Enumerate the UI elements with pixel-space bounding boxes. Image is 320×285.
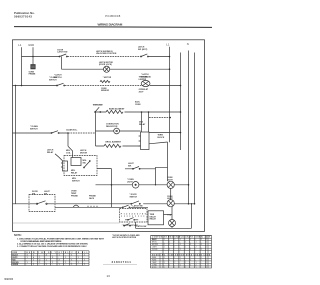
svg-text:LIGHT: LIGHT: [152, 247, 157, 249]
riser box pin2: [148, 112, 150, 132]
svg-text:1: 1: [84, 260, 85, 262]
junction clean: [67, 132, 69, 134]
junction lamp wire cross: [111, 184, 113, 186]
wire curve to relay: [55, 154, 63, 161]
wire box to bus diagonal: [149, 142, 168, 144]
connector strip pins: [121, 212, 146, 215]
switch blade lower: [68, 146, 73, 157]
svg-text:L1: L1: [166, 43, 170, 47]
wire W2 row: [62, 68, 170, 70]
svg-text:SWITCH: SWITCH: [49, 80, 57, 82]
svg-text:1: 1: [78, 257, 79, 259]
svg-text:* MOTOR: * MOTOR: [103, 77, 112, 79]
switch inside relay box: [84, 161, 91, 169]
label latch note right: [141, 73, 152, 78]
wire motor row: [96, 130, 141, 132]
svg-text:1: 1: [71, 264, 72, 266]
label door latch switch: [57, 49, 68, 53]
motor latch solenoid: [104, 66, 110, 72]
wire R3 to bottom rail: [171, 227, 173, 229]
label relay inside bottom: [71, 170, 78, 174]
label lamp right 2: [167, 196, 174, 200]
model chart text: [152, 236, 211, 269]
svg-text:1: 1: [164, 262, 165, 264]
svg-text:LIGHT: LIGHT: [127, 182, 134, 184]
label clean row left: [30, 125, 38, 130]
svg-text:1: 1: [33, 260, 34, 262]
wire timer to lamp R3: [164, 213, 173, 215]
relay small box: [61, 161, 68, 171]
header rule: [14, 26, 212, 29]
svg-text:1: 1: [180, 249, 181, 251]
svg-text:1: 1: [190, 257, 191, 259]
svg-text:RELAY: RELAY: [150, 218, 157, 221]
bus N right: [194, 53, 196, 204]
label eoc: [135, 102, 141, 106]
svg-text:1: 1: [59, 255, 60, 257]
svg-text:MOTOR: MOTOR: [152, 244, 159, 246]
junction dash end: [169, 117, 171, 119]
label latch switch note: [54, 73, 62, 78]
svg-text:LIGHT: LIGHT: [167, 179, 174, 181]
svg-text:3. CONNECTORS A-P SHOWN ON BOA: 3. CONNECTORS A-P SHOWN ON BOARD ARE FOR…: [17, 245, 87, 248]
svg-text:1: 1: [174, 257, 175, 259]
svg-text:13: 13: [107, 274, 111, 278]
riser box pin1: [141, 112, 143, 132]
connector pin ticks: [122, 215, 144, 216]
table text: [12, 251, 87, 266]
wire L1 left drop: [21, 47, 23, 85]
label relay board: [139, 122, 146, 126]
bottom rail: [136, 227, 192, 229]
svg-text:2: 2: [185, 242, 186, 244]
bus 3 right: [188, 51, 190, 204]
svg-text:WIRE: WIRE: [152, 257, 156, 259]
svg-text:FRAME: FRAME: [29, 73, 36, 76]
wire clean dashed: [68, 132, 96, 134]
schematic border frame: [13, 40, 205, 232]
svg-text:P04B0008: P04B0008: [105, 14, 120, 18]
junction W1 bus: [169, 56, 171, 58]
svg-text:1: 1: [27, 257, 28, 259]
junction W3 bus2: [180, 85, 182, 87]
wire dashed under bake: [149, 117, 170, 119]
svg-text:1: 1: [59, 264, 60, 266]
svg-text:1: 1: [180, 239, 181, 241]
label latch motor: [99, 61, 113, 66]
svg-text:1: 1: [206, 239, 207, 241]
faint long wire bottom left: [13, 222, 120, 224]
motor convection: [114, 128, 120, 134]
switch clean W3: [56, 83, 64, 86]
bus drop to rail: [191, 204, 193, 229]
svg-text:FAN MOTOR: FAN MOTOR: [106, 125, 118, 128]
svg-text:1: 1: [169, 242, 170, 244]
svg-text:RELAY: RELAY: [71, 172, 78, 175]
lamp oven light: [132, 182, 139, 189]
svg-text:THERMOSTAT: THERMOSTAT: [93, 103, 104, 106]
svg-text:BROIL ELEMENT: BROIL ELEMENT: [106, 142, 122, 144]
svg-text:NOTE: NOTE: [152, 267, 156, 269]
wire W9 clean row: [13, 132, 69, 134]
svg-text:1: 1: [164, 267, 165, 269]
lamp R3: [169, 220, 176, 227]
NOTE block: [14, 234, 104, 248]
bus element feed: [95, 112, 97, 146]
svg-text:WIRING DIAGRAM: WIRING DIAGRAM: [98, 23, 123, 27]
bus L1 right: [169, 47, 171, 142]
svg-text:FUSE: FUSE: [152, 259, 156, 261]
svg-text:2: 2: [185, 267, 186, 269]
switch bottom faint row: [124, 224, 131, 227]
label door switch: [32, 191, 51, 195]
svg-text:1: 1: [164, 257, 165, 259]
footnote right of NOTE: [112, 234, 140, 239]
svg-text:1: 1: [206, 262, 207, 264]
label gasket: [47, 149, 54, 154]
switch in connector box: [125, 218, 138, 221]
svg-text:GND: GND: [28, 43, 34, 47]
switch clean row: [51, 131, 59, 134]
lamp right 1: [167, 181, 174, 188]
svg-text:2: 2: [174, 239, 175, 241]
svg-text:P 1 2 3 4 5 6 7 8 9: P 1 2 3 4 5 6 7 8 9: [121, 212, 146, 215]
svg-text:1: 1: [84, 264, 85, 266]
control board box: [139, 132, 149, 150]
svg-text:1: 1: [180, 244, 181, 246]
label lamp right 1: [167, 177, 174, 181]
svg-text:1: 1: [180, 259, 181, 261]
door switch dashed box: [29, 195, 55, 212]
probe ticks: [88, 206, 97, 208]
svg-text:1: 1: [201, 257, 202, 259]
svg-text:1: 1: [174, 247, 175, 249]
svg-text:CLEAN SOL.: CLEAN SOL.: [66, 128, 78, 131]
svg-text:2: 2: [196, 247, 197, 249]
label oven lamp: [127, 179, 134, 183]
svg-text:1: 1: [71, 260, 72, 262]
svg-text:5995270143: 5995270143: [14, 15, 32, 19]
wire W3 row: [13, 85, 181, 87]
switch light row: [125, 167, 156, 170]
junction rail bus: [191, 203, 192, 204]
wire W1 dashed: [67, 56, 140, 58]
label latch switch right: [138, 46, 148, 51]
relay dashed box: [64, 156, 97, 176]
wire W3 dashed: [65, 85, 141, 87]
svg-text:1: 1: [201, 249, 202, 251]
label temp probe: [71, 191, 78, 198]
svg-text:1: 1: [206, 267, 207, 269]
junction box out: [180, 132, 182, 134]
vertical between lamps: [170, 188, 172, 199]
svg-text:2. ALL WIRING IS 18 GA. 105 C: 2. ALL WIRING IS 18 GA. 105 C UNLESS OTH…: [17, 243, 88, 246]
svg-text:2: 2: [190, 259, 191, 261]
svg-text:2: 2: [59, 260, 60, 262]
label relay inside: [83, 160, 88, 164]
wire temp probe row: [55, 206, 148, 208]
junction lamp bus: [188, 184, 190, 186]
probe hump: [73, 205, 79, 207]
svg-text:BLOCK: BLOCK: [158, 137, 165, 139]
wiring color code table: [12, 251, 90, 266]
svg-text:MOTOR: MOTOR: [80, 153, 88, 155]
svg-text:2: 2: [46, 255, 47, 257]
svg-text:NOTE:: NOTE:: [14, 234, 22, 237]
wire broil row: [96, 145, 141, 147]
label relay out: [158, 134, 165, 138]
svg-text:TOD: TOD: [167, 215, 172, 217]
svg-text:1: 1: [39, 262, 40, 264]
svg-text:1: 1: [78, 262, 79, 264]
label below relay box: [72, 178, 80, 182]
svg-text:1: 1: [196, 267, 197, 269]
svg-text:CLOCK: CLOCK: [152, 249, 158, 251]
bus 2 right: [180, 53, 182, 151]
relay coil box: [71, 158, 81, 166]
svg-text:SWITCH: SWITCH: [130, 197, 138, 199]
label clean switch: [49, 76, 57, 81]
label door row switch: [130, 194, 138, 198]
svg-text:BROWN: BROWN: [12, 262, 19, 264]
svg-text:1: 1: [39, 257, 40, 259]
svg-text:1: 1: [164, 239, 165, 241]
svg-text:2: 2: [206, 242, 207, 244]
rule under document number: [103, 263, 137, 265]
svg-text:2: 2: [164, 244, 165, 246]
label light switch: [128, 163, 135, 167]
svg-text:SW.: SW.: [83, 163, 87, 165]
resistor bake element: [106, 110, 123, 113]
svg-text:TEMP: TEMP: [152, 262, 156, 264]
label relay box top 2: [80, 149, 88, 154]
svg-text:2: 2: [174, 262, 175, 264]
ground chassis symbol: [31, 65, 35, 69]
svg-text:2: 2: [201, 239, 202, 241]
resistor small W3: [100, 80, 110, 82]
wire bake row: [96, 111, 181, 113]
thermal fuse box: [141, 80, 150, 86]
svg-text:1: 1: [46, 264, 47, 266]
svg-text:1: 1: [206, 247, 207, 249]
svg-text:N: N: [187, 42, 189, 46]
wire lamp row: [96, 184, 189, 186]
svg-text:1: 1: [201, 259, 202, 261]
svg-text:09/06: 09/06: [5, 277, 14, 281]
svg-text:SW.: SW.: [128, 165, 132, 167]
svg-text:(DOOR LOCK): (DOOR LOCK): [99, 64, 112, 66]
wire relay out right: [97, 169, 112, 208]
wire clean drop: [67, 133, 69, 146]
svg-text:1: 1: [52, 262, 53, 264]
svg-text:L1: L1: [18, 43, 22, 47]
svg-text:DOOR CLOSED AND ALL SWITCHES I: DOOR CLOSED AND ALL SWITCHES IN OFF POSI…: [21, 240, 62, 243]
switch door row right: [131, 201, 141, 204]
publication number header: [14, 11, 35, 19]
svg-text:BROIL: BROIL: [152, 242, 157, 244]
svg-text:3: 3: [27, 255, 28, 257]
svg-text:LATCH SW.: LATCH SW.: [57, 51, 68, 54]
label mid notes: [96, 50, 117, 55]
svg-text:1: 1: [169, 264, 170, 266]
svg-text:LIGHT: LIGHT: [167, 198, 174, 200]
svg-text:1: 1: [33, 255, 34, 257]
svg-text:GREEN: GREEN: [12, 264, 19, 266]
label thermal fuse top: [139, 76, 149, 81]
switch oven tstat: [95, 107, 101, 112]
switch latch bottom W1: [140, 54, 148, 57]
svg-text:1: 1: [27, 262, 28, 264]
junction inner bus top: [15, 85, 16, 86]
svg-text:BAKE ELEMENT: BAKE ELEMENT: [109, 108, 125, 111]
svg-text:1: 1: [84, 255, 85, 257]
label relay box top 1: [66, 150, 71, 154]
junction W2 bus: [169, 68, 171, 70]
wire box out right: [149, 132, 181, 134]
junction lamp bus2: [155, 184, 156, 185]
svg-text:2: 2: [180, 257, 181, 259]
wire W1 row: [22, 56, 170, 58]
svg-text:1: 1: [164, 247, 165, 249]
svg-text:2: 2: [52, 257, 53, 259]
svg-text:JACK: JACK: [89, 197, 95, 200]
svg-text:1: 1: [65, 257, 66, 259]
svg-text:UNLOCKED POSITION: UNLOCKED POSITION: [96, 53, 117, 55]
svg-text:1: 1: [190, 264, 191, 266]
wire lamp feed vertical: [156, 142, 168, 185]
svg-text:1: 1: [196, 262, 197, 264]
connector strip dashed box: [120, 209, 148, 223]
svg-text:1: 1: [180, 264, 181, 266]
svg-text:1: 1: [169, 259, 170, 261]
junction bake bus: [180, 111, 182, 113]
wire R2 down to R3: [171, 207, 173, 220]
lamp right 2: [167, 200, 174, 207]
label probe jack: [89, 196, 96, 200]
svg-text:WHITE: WHITE: [12, 257, 17, 259]
bus left inner: [15, 86, 17, 204]
svg-text:1: 1: [65, 262, 66, 264]
wire GND drop: [32, 47, 34, 64]
svg-text:RELAY: RELAY: [47, 151, 54, 154]
switch door latch W1: [59, 54, 67, 57]
svg-text:LATCH SW: LATCH SW: [137, 225, 147, 228]
svg-text:1: 1: [206, 259, 207, 261]
svg-text:LATCH IN OPEN POSITION: LATCH IN OPEN POSITION: [112, 236, 137, 239]
switch probe row: [122, 205, 130, 208]
svg-text:1: 1: [201, 244, 202, 246]
svg-text:SWITCH: SWITCH: [72, 180, 80, 182]
label sensor: [101, 88, 110, 92]
svg-text:1: 1: [46, 260, 47, 262]
svg-text:SW. (BOT): SW. (BOT): [138, 49, 148, 51]
svg-text:SWITCH: SWITCH: [30, 129, 38, 131]
svg-text:SW.: SW.: [44, 194, 48, 196]
timer box: [148, 211, 164, 225]
svg-text:2: 2: [39, 260, 40, 262]
svg-text:1: 1: [196, 242, 197, 244]
wire W1-W2 drop: [61, 57, 63, 70]
svg-text:1: 1: [33, 264, 34, 266]
svg-text:1: 1: [174, 267, 175, 269]
svg-text:1: 1: [71, 255, 72, 257]
label timer box: [150, 214, 157, 221]
model chart table: [151, 236, 212, 269]
svg-text:SW.: SW.: [32, 194, 36, 196]
switch door: [35, 201, 50, 205]
svg-text:2: 2: [196, 264, 197, 266]
svg-text:1: 1: [190, 239, 191, 241]
svg-text:SENSOR: SENSOR: [101, 90, 110, 92]
svg-text:2: 2: [190, 244, 191, 246]
junction riser1: [141, 111, 143, 113]
svg-text:318047011: 318047011: [112, 260, 132, 264]
svg-text:RELAY: RELAY: [139, 123, 146, 126]
label thermal fuse bottom: [139, 88, 149, 93]
svg-text:1: 1: [185, 247, 186, 249]
svg-text:1: 1: [190, 249, 191, 251]
svg-text:CODE: CODE: [12, 252, 17, 254]
wire door row: [13, 203, 168, 205]
label oven frame: [29, 71, 36, 75]
junction riser2: [148, 111, 150, 113]
svg-text:PROBE: PROBE: [71, 195, 78, 197]
wire lamp2 to bus: [174, 203, 194, 205]
svg-text:1: 1: [185, 262, 186, 264]
svg-text:1: 1: [174, 242, 175, 244]
junction L1 W3: [21, 85, 23, 87]
svg-text:* LATCH SW: * LATCH SW: [131, 205, 142, 208]
svg-text:290 F: 290 F: [139, 91, 145, 93]
svg-text:2: 2: [169, 249, 170, 251]
svg-text:LIMITER: LIMITER: [139, 79, 147, 81]
resistor broil element: [104, 144, 121, 147]
svg-text:OVEN: OVEN: [135, 104, 141, 106]
label conv motor: [106, 124, 119, 128]
svg-text:1: 1: [169, 244, 170, 246]
drop from connector box: [135, 222, 137, 228]
junction lamp2 bus: [194, 203, 196, 205]
junction GND-W1: [32, 56, 34, 58]
junction bus3 door row: [188, 203, 190, 205]
svg-text:1. DISCONNECT ELECTRICAL POWER: 1. DISCONNECT ELECTRICAL POWER BEFORE SE…: [17, 237, 104, 240]
